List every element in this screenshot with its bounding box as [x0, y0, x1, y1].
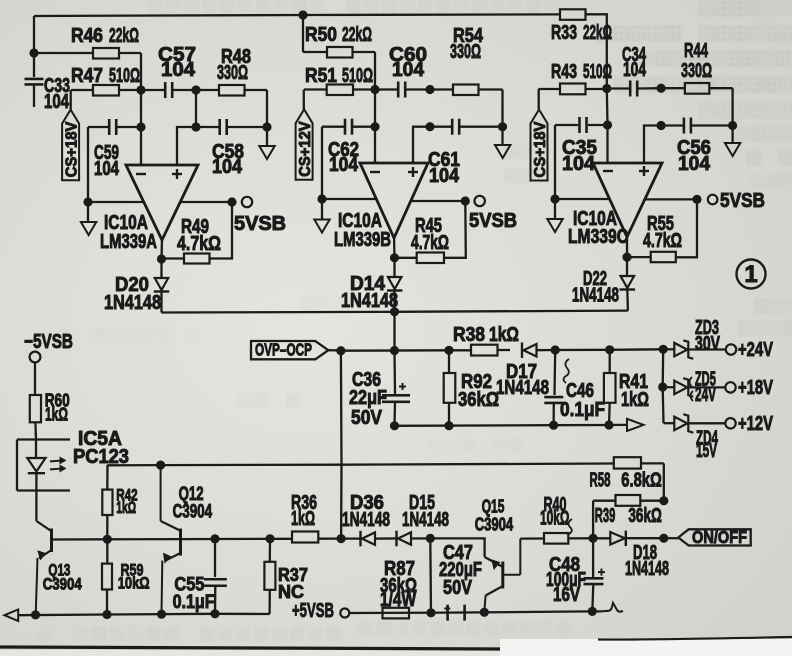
wire control bus	[108, 464, 614, 466]
node C36 top	[390, 346, 399, 355]
svg-text:+24V: +24V	[738, 339, 773, 361]
op-amp IC10A LM339B	[334, 163, 428, 251]
resistor R54	[430, 25, 503, 127]
node A3 junction	[602, 84, 611, 93]
wire base bus left	[53, 538, 179, 541]
svg-text:5VSB: 5VSB	[720, 190, 765, 212]
resistor R60	[30, 363, 70, 440]
wire Q15 collector leg	[430, 538, 484, 557]
LED inside IC5A	[27, 440, 45, 522]
correction squiggle above R40	[565, 519, 572, 534]
wire comparator output bus	[162, 311, 629, 313]
node D36 anode junction	[337, 534, 346, 543]
svg-text:104: 104	[429, 165, 460, 187]
svg-text:0.1μF: 0.1μF	[560, 399, 605, 421]
wire C59 left leg	[87, 127, 89, 202]
node B2 junction	[425, 85, 434, 94]
svg-text:0.1μF: 0.1μF	[173, 592, 215, 613]
svg-text:510Ω: 510Ω	[583, 61, 612, 83]
wire apex stage3	[626, 235, 628, 257]
node output stage3	[692, 195, 701, 204]
optocoupler IC5A PC123 package	[17, 428, 129, 491]
terminal -5VSB	[24, 331, 73, 362]
ground stage1 right	[259, 127, 274, 159]
node C55 top junction	[210, 534, 219, 543]
wire minus input stage3	[606, 125, 608, 164]
wire minus column stage1	[140, 90, 142, 127]
terminal 5VSB stage2	[469, 196, 517, 232]
reference circle 1	[737, 260, 766, 289]
capacitor C60	[375, 44, 430, 98]
correction squiggle above C46	[564, 359, 570, 383]
svg-text:1/4W: 1/4W	[380, 589, 416, 611]
svg-text:16V: 16V	[553, 584, 580, 606]
svg-text:104: 104	[44, 91, 70, 113]
svg-text:104: 104	[212, 156, 243, 178]
svg-text:22kΩ: 22kΩ	[342, 24, 372, 46]
resistor R38	[453, 324, 519, 356]
svg-text:4.7kΩ: 4.7kΩ	[643, 230, 682, 252]
node R59 bottom junction	[102, 610, 111, 619]
svg-text:NC: NC	[278, 581, 304, 602]
node A2 junction	[370, 85, 379, 94]
svg-text:R46: R46	[71, 25, 103, 47]
resistor R39 loop	[593, 495, 664, 538]
ground stage2 left	[314, 199, 329, 233]
svg-text:1kΩ: 1kΩ	[489, 324, 519, 346]
ground stage3 right	[725, 126, 740, 157]
terminal +12V	[725, 413, 773, 435]
wire top supply bus	[34, 14, 560, 16]
tag CS+12V	[296, 90, 314, 180]
svg-text:36kΩ: 36kΩ	[458, 389, 499, 411]
node R92 bottom	[444, 421, 453, 430]
svg-text:50V: 50V	[351, 407, 383, 429]
node C56 left junction	[657, 121, 666, 130]
node B3 junction	[657, 84, 666, 93]
diode D22 1N4148	[572, 257, 635, 311]
terminal 5VSB stage1	[234, 197, 286, 235]
svg-text:104: 104	[678, 153, 711, 175]
transistor Q12 C3904	[161, 465, 213, 614]
resistor R50	[303, 15, 375, 90]
node inverting side stage3	[550, 194, 559, 203]
diode D36 1N4148	[341, 492, 396, 546]
diode D20 1N4148	[104, 259, 169, 314]
node minus junction stage3	[603, 120, 612, 129]
svg-text:+18V: +18V	[738, 377, 773, 399]
zener ZD4 15V	[664, 414, 726, 462]
svg-text:+12V: +12V	[738, 413, 773, 435]
svg-text:1kΩ: 1kΩ	[291, 508, 315, 530]
svg-text:1kΩ: 1kΩ	[116, 499, 136, 517]
svg-text:LM339A: LM339A	[100, 231, 157, 253]
node C55 bottom junction	[210, 609, 219, 618]
diode D14 1N4148	[341, 258, 402, 351]
node inverting side stage1	[83, 197, 92, 206]
svg-text:104: 104	[161, 59, 196, 81]
svg-text:24V: 24V	[695, 384, 716, 406]
op-amp IC10A LM339A	[100, 165, 198, 253]
wire output stage1	[180, 201, 232, 203]
wire apex stage2	[393, 236, 396, 258]
svg-text:104: 104	[623, 59, 647, 81]
resistor R47	[71, 65, 141, 96]
wire zener column	[662, 349, 665, 423]
node apex junction stage2	[390, 253, 399, 262]
capacitor C35	[555, 117, 608, 175]
node inverting side stage2	[317, 194, 326, 203]
svg-text:R39: R39	[595, 505, 616, 527]
transistor Q15 C3904	[475, 497, 521, 612]
svg-text:CS+18V: CS+18V	[532, 121, 549, 177]
node R39 R58 junction	[659, 496, 668, 505]
node apex junction stage1	[157, 254, 166, 263]
node A1 junction	[136, 85, 145, 94]
node C56 right junction	[728, 121, 737, 130]
resistor R87 36k 1/4W	[380, 558, 417, 618]
wire Q15 base to R40	[520, 537, 544, 539]
light arrows IC5A	[50, 457, 66, 471]
terminal +18V	[725, 377, 773, 399]
wire feedback stage1	[210, 202, 233, 259]
resistor R55	[627, 213, 682, 262]
svg-text:15V: 15V	[696, 440, 717, 462]
wire left rail	[33, 16, 35, 53]
zener ZD5 24V	[663, 369, 726, 407]
node OVP tag junction	[336, 346, 345, 355]
svg-text:22μF: 22μF	[349, 387, 387, 409]
capacitor C34	[607, 44, 661, 97]
svg-text:30V: 30V	[695, 333, 720, 355]
resistor R51	[304, 65, 375, 95]
node R92 top	[444, 346, 453, 355]
node C46 top	[551, 345, 560, 354]
capacitor C48 100uF 16V	[546, 538, 605, 611]
resistor R59	[102, 539, 150, 614]
svg-text:10kΩ: 10kΩ	[540, 508, 570, 530]
node output stage2	[461, 196, 470, 205]
node Q12 collector junction	[156, 461, 165, 470]
svg-text:1N4148: 1N4148	[342, 509, 390, 531]
node apex junction stage3	[622, 253, 631, 262]
svg-text:R38: R38	[453, 324, 485, 346]
node R41 bottom	[604, 420, 613, 429]
svg-text:CS+12V: CS+12V	[297, 121, 314, 177]
resistor R40	[540, 494, 593, 544]
wire minus column stage2	[374, 90, 376, 127]
capacitor C61	[428, 119, 503, 187]
svg-text:1kΩ: 1kΩ	[45, 405, 68, 425]
svg-text:R33: R33	[551, 22, 577, 44]
tag CS+18V stage3	[531, 89, 549, 181]
svg-text:R47: R47	[71, 65, 103, 87]
wire C62 left leg	[321, 127, 323, 199]
svg-text:330Ω: 330Ω	[450, 41, 481, 63]
open arrow bottom-left	[5, 610, 19, 622]
svg-text:104: 104	[562, 153, 596, 175]
wire minus column stage3	[606, 89, 609, 126]
svg-text:5VSB: 5VSB	[234, 213, 286, 235]
zener ZD3 30V	[663, 317, 726, 359]
svg-text:LM339B: LM339B	[334, 229, 391, 251]
wire output stage2	[411, 200, 466, 202]
resistor R45	[395, 215, 450, 263]
node Q15 emitter junction	[480, 608, 489, 617]
node R42 bottom junction	[103, 535, 112, 544]
svg-text:6.8kΩ: 6.8kΩ	[621, 470, 662, 492]
wire base bus middle	[182, 538, 292, 541]
svg-text:4.7kΩ: 4.7kΩ	[177, 233, 221, 255]
svg-text:Q15: Q15	[482, 497, 505, 517]
wire D15 node drop	[429, 538, 432, 612]
wire OVP bus right part	[555, 348, 663, 351]
capacitor C56	[661, 118, 733, 176]
node C46 bottom	[549, 421, 558, 430]
node C48 bottom junction	[588, 607, 597, 616]
svg-text:CS+18V: CS+18V	[63, 121, 80, 177]
resistor R41	[604, 350, 649, 426]
tag ON/OFF	[664, 527, 751, 547]
svg-text:C3904: C3904	[43, 575, 82, 594]
node C61 right junction	[498, 122, 507, 131]
wire node B1 drop	[195, 90, 197, 127]
wire plus jog stage3	[644, 126, 661, 165]
node R39 C48 junction	[589, 534, 598, 543]
capacitor C59	[88, 119, 141, 180]
capacitor C36 22uF 50V	[349, 351, 410, 430]
node C36 bottom	[390, 421, 399, 430]
node D18 cathode junction	[659, 534, 668, 543]
svg-text:+5VSB: +5VSB	[292, 600, 334, 622]
wire inverting stub stage2	[322, 198, 376, 200]
node ZD5 junction	[658, 382, 667, 391]
svg-text:C3904: C3904	[173, 502, 213, 523]
node D15 cathode junction	[426, 534, 435, 543]
wire apex stage1	[160, 238, 163, 259]
svg-text:22kΩ: 22kΩ	[583, 22, 612, 44]
capacitor C33	[25, 53, 71, 113]
node stage2 top junction	[298, 10, 307, 19]
node R41 top	[605, 345, 614, 354]
ground squiggle arrow	[601, 603, 623, 612]
node zener column top	[659, 345, 668, 354]
node stage1 top-left junction	[29, 48, 38, 57]
ground stage3 left	[547, 199, 562, 232]
svg-text:10kΩ: 10kΩ	[118, 574, 150, 593]
svg-text:R58: R58	[590, 470, 611, 492]
svg-text:1N4148: 1N4148	[341, 290, 398, 312]
svg-text:1N4148: 1N4148	[496, 377, 549, 399]
resistor R44	[661, 40, 733, 124]
node R37 top junction	[265, 534, 274, 543]
capacitor C47 220uF 50V	[439, 542, 482, 621]
svg-text:330Ω: 330Ω	[681, 60, 712, 82]
ground stage1 left	[81, 202, 96, 235]
node C58 right junction	[262, 122, 271, 131]
capacitor C46 0.1uF	[544, 350, 605, 426]
wire plus jog stage2	[413, 127, 430, 164]
capacitor C57	[141, 44, 196, 98]
resistor R42	[102, 465, 137, 540]
tag CS+18V	[62, 90, 80, 180]
wire OVP drop to lower bus	[340, 351, 343, 539]
op-amp IC10A LM339C	[568, 163, 662, 248]
transistor Q13 C3904	[36, 521, 82, 615]
node minus junction stage2	[370, 122, 379, 131]
svg-text:104: 104	[94, 158, 120, 180]
svg-text:510Ω: 510Ω	[342, 65, 373, 87]
capacitor C55 0.1uF	[173, 539, 227, 614]
capacitor C62	[322, 119, 375, 176]
wire bottom bus right	[349, 611, 601, 613]
tag OVP-OCP	[251, 340, 341, 360]
svg-text:C3904: C3904	[475, 515, 514, 535]
diode D17 1N4148	[496, 342, 555, 399]
terminal 5VSB stage3	[708, 190, 765, 212]
svg-text:OVP–OCP: OVP–OCP	[255, 340, 312, 360]
wire minus input stage1	[140, 127, 142, 166]
svg-text:5VSB: 5VSB	[469, 210, 517, 232]
wire lower OVP bus	[395, 424, 627, 427]
node R87 right junction	[426, 608, 435, 617]
resistor R58 6.8k	[590, 457, 664, 501]
resistor R36	[291, 492, 341, 543]
node D14 on output bus	[390, 307, 399, 316]
node minus junction stage1	[136, 122, 145, 131]
wire inverting stub stage1	[88, 201, 144, 203]
resistor R46	[34, 25, 141, 90]
svg-text:1N4148: 1N4148	[402, 509, 449, 531]
wire plus jog stage1	[177, 127, 196, 166]
wire feedback stage2	[444, 201, 466, 258]
svg-text:22kΩ: 22kΩ	[109, 25, 139, 47]
terminal +24V	[726, 339, 774, 361]
svg-text:1N4148: 1N4148	[572, 285, 619, 307]
resistor R33	[551, 9, 612, 44]
node Q12 emitter junction	[157, 610, 166, 619]
resistor R48	[196, 46, 267, 127]
svg-text:510Ω: 510Ω	[109, 65, 140, 87]
node C61 left junction	[425, 122, 434, 131]
svg-text:1N4148: 1N4148	[104, 292, 161, 314]
wire inverting stub stage3	[555, 198, 610, 200]
wire R33 to corner segment	[586, 14, 607, 88]
svg-text:330Ω: 330Ω	[217, 62, 248, 84]
svg-text:1N4148: 1N4148	[625, 558, 669, 580]
svg-text:R43: R43	[551, 61, 577, 83]
node C58 left junction	[191, 122, 200, 131]
svg-text:104: 104	[392, 59, 425, 81]
diode D15 1N4148	[397, 492, 450, 546]
wire C35 left leg	[554, 125, 556, 199]
svg-text:36kΩ: 36kΩ	[628, 505, 662, 527]
svg-text:R44: R44	[684, 40, 709, 62]
wire output stage3	[645, 198, 697, 200]
svg-text:4.7kΩ: 4.7kΩ	[411, 232, 449, 254]
wire minus input stage2	[374, 127, 376, 164]
svg-text:1kΩ: 1kΩ	[621, 389, 649, 411]
diode D18 1N4148	[593, 531, 669, 580]
terminal +5VSB	[292, 600, 349, 622]
wire feedback stage3	[676, 199, 697, 257]
resistor R43	[539, 61, 613, 94]
wire OVP bus	[341, 349, 471, 352]
svg-text:−5VSB: −5VSB	[24, 331, 73, 353]
ground stage2 right	[495, 127, 510, 158]
node Q13 emitter junction	[31, 610, 40, 619]
svg-text:1: 1	[744, 261, 757, 288]
svg-text:104: 104	[329, 154, 359, 176]
svg-text:ON/OFF: ON/OFF	[692, 527, 747, 547]
open arrow end of lower bus	[627, 419, 644, 431]
resistor R37 NC	[264, 539, 308, 614]
svg-text:R51: R51	[305, 65, 337, 87]
svg-text:LM339C: LM339C	[568, 226, 628, 248]
wire bottom bus left	[18, 614, 269, 615]
resistor R92	[444, 350, 499, 425]
svg-text:50V: 50V	[443, 577, 473, 599]
node output stage1	[227, 197, 236, 206]
capacitor C58	[196, 119, 267, 178]
resistor R49	[162, 216, 222, 264]
svg-text:R50: R50	[305, 24, 337, 46]
node B1 junction	[191, 85, 200, 94]
